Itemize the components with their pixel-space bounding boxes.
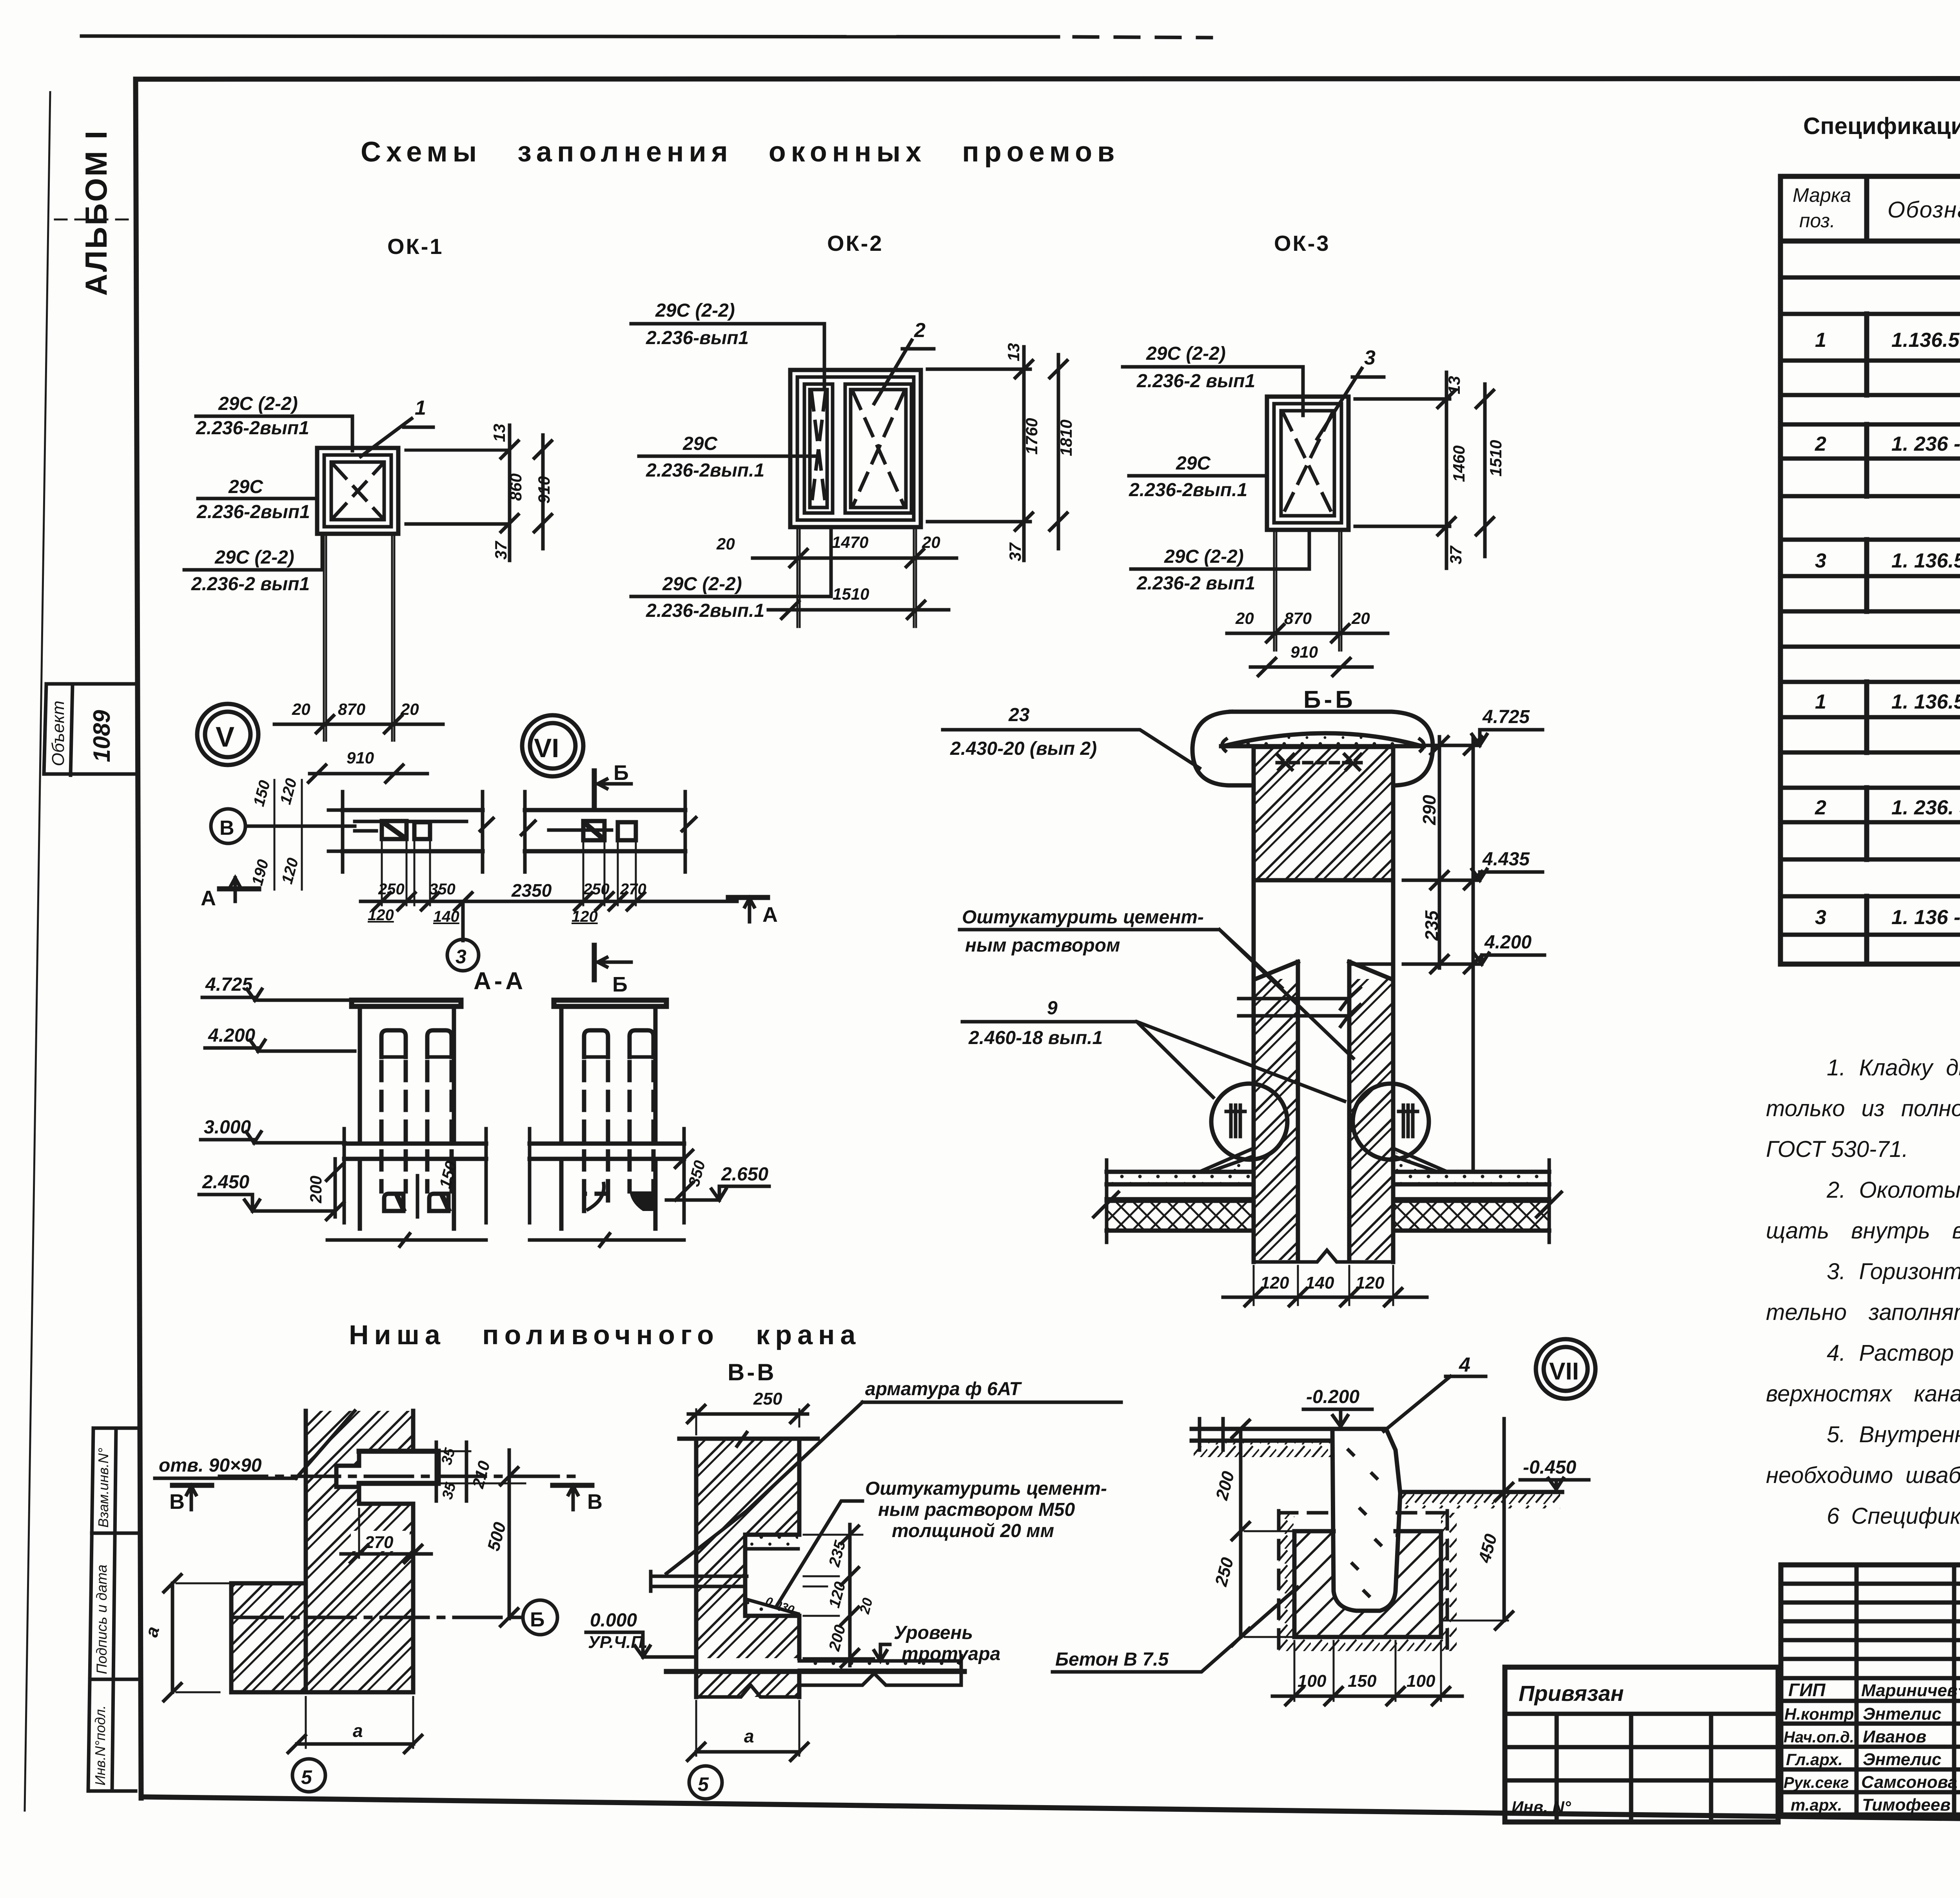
OK-1 right dim line 860 [508, 425, 512, 560]
svg-text:поз.: поз. [1799, 210, 1835, 232]
svg-text:В-В: В-В [728, 1359, 777, 1385]
OK-1 window frame outer [317, 448, 398, 534]
svg-text:290: 290 [1419, 795, 1439, 825]
BB channel right wall hatched [1349, 979, 1391, 1260]
svg-text:Б-Б: Б-Б [1303, 686, 1356, 713]
pos circle 3 [461, 901, 465, 941]
A-A right wall below roof [561, 1159, 655, 1229]
svg-text:20: 20 [1351, 609, 1370, 627]
niche plan section mark B left [172, 1483, 212, 1488]
A-A left vent arch 2 [427, 1030, 452, 1057]
V dim projection lines [382, 839, 430, 905]
node VII circle [1536, 1339, 1595, 1399]
svg-text:1.136.5 - 16·ч 1,2: 1.136.5 - 16·ч 1,2 [1891, 329, 1960, 352]
svg-text:Объект: Объект [49, 701, 68, 766]
svg-text:5: 5 [698, 1773, 709, 1795]
svg-text:только из полнотелого глиняног: только из полнотелого глиняного обыкнове… [1766, 1096, 1960, 1121]
svg-text:ГИП: ГИП [1788, 1680, 1826, 1700]
OK-3 bottom dim 910 [1250, 665, 1372, 669]
svg-text:1: 1 [1815, 329, 1826, 352]
svg-text:тельно заполнять раствором.: тельно заполнять раствором. [1766, 1300, 1960, 1325]
svg-text:Энтелис: Энтелис [1863, 1750, 1941, 1769]
BB channel left wall hatched [1256, 979, 1298, 1260]
OK-2 right dim 1760 [1022, 347, 1026, 560]
svg-text:3: 3 [1364, 346, 1376, 369]
svg-text:4.200: 4.200 [208, 1025, 255, 1046]
A-A left wall below roof [360, 1159, 454, 1229]
svg-text:1: 1 [415, 397, 426, 419]
section mark Б bottom [592, 945, 597, 980]
svg-text:необходимо швабровать жидким г: необходимо швабровать жидким глинопесчан… [1766, 1463, 1960, 1488]
OK-2 bottom dim 1510 [768, 608, 949, 612]
VII ground left [1192, 1429, 1332, 1441]
VV footing line [799, 1673, 961, 1685]
A-A left channel dashes [381, 1062, 452, 1191]
svg-text:270: 270 [620, 881, 646, 898]
axis B circle [211, 809, 245, 843]
svg-text:ным раствором: ным раствором [965, 935, 1120, 956]
niche plan section mark B right [553, 1483, 592, 1488]
svg-text:a: a [744, 1726, 754, 1746]
svg-text:870: 870 [1284, 609, 1312, 627]
section mark A right [728, 895, 768, 900]
A-A left bottom dim line [327, 1234, 486, 1246]
A-A right vent arch 1 [584, 1030, 608, 1057]
left margin divider dashes [55, 219, 136, 221]
BB flashing in left circle [1226, 1105, 1245, 1137]
svg-text:В: В [220, 817, 234, 839]
OK-1 bottom dim line 20-870-20 [274, 723, 443, 726]
VV dims right: 235,120,20,200 [804, 1535, 874, 1658]
niche plan dim 270 [351, 1531, 410, 1551]
OK-2 bottom projection lines [797, 527, 916, 627]
OK-1 bottom projection lines [324, 534, 394, 741]
VV sidewalk dotted band [799, 1661, 961, 1670]
svg-text:2: 2 [1815, 433, 1826, 455]
svg-text:2: 2 [1815, 796, 1826, 819]
VI dim projection lines [583, 840, 636, 905]
svg-text:А: А [762, 903, 778, 926]
A-A right cap slab [554, 1000, 666, 1006]
A-A left lower openings [384, 1194, 403, 1211]
svg-text:4.200: 4.200 [1484, 932, 1532, 953]
OK-2 left sash [804, 384, 833, 513]
svg-text:20: 20 [716, 535, 735, 553]
svg-text:3: 3 [456, 946, 466, 968]
svg-text:отв. 90×90: отв. 90×90 [159, 1455, 262, 1476]
svg-text:тротуара: тротуара [902, 1644, 1000, 1664]
niche plan dim 500 [508, 1450, 511, 1619]
svg-text:20: 20 [400, 700, 419, 718]
svg-text:350: 350 [429, 881, 456, 898]
VV niche lintel dotted [747, 1536, 798, 1549]
svg-text:1. 236. 5 - 9: 1. 236. 5 - 9 [1891, 796, 1960, 819]
VI wall band [525, 810, 685, 851]
node V circle [197, 704, 258, 765]
OK-1 right projection lines [405, 450, 510, 525]
svg-text:20: 20 [1235, 609, 1254, 627]
OK-2 bottom dim 20-1470-20 [753, 557, 956, 560]
niche plan dim a left [171, 1583, 174, 1692]
BB roof layers right [1393, 1172, 1549, 1199]
svg-text:4: 4 [1459, 1354, 1470, 1376]
svg-text:150: 150 [1348, 1671, 1377, 1691]
VII dim 250 left [1239, 1531, 1243, 1637]
BB stack outer walls [1254, 880, 1393, 1262]
svg-text:1089: 1089 [89, 710, 115, 762]
svg-text:29С: 29С [228, 477, 263, 497]
A-A dim 200 [334, 1159, 337, 1217]
svg-text:29С (2-2): 29С (2-2) [662, 574, 742, 595]
OK-1 window frame middle [324, 455, 391, 527]
sheet outer left border [25, 92, 50, 1811]
svg-text:Б: Б [530, 1608, 544, 1631]
A-A right bottom dim line [530, 1234, 684, 1246]
svg-text:29С: 29С [682, 433, 718, 454]
svg-text:200: 200 [307, 1176, 325, 1204]
svg-text:2.460-18 вып.1: 2.460-18 вып.1 [968, 1028, 1103, 1048]
A-A right channel dashes [584, 1062, 653, 1191]
signature grid upper empty rows [1781, 1584, 1960, 1678]
svg-text:Б: Б [612, 973, 628, 996]
svg-text:Взам.инв.N°: Взам.инв.N° [95, 1448, 111, 1528]
svg-text:100: 100 [1298, 1671, 1327, 1691]
signature grid verticals [1857, 1565, 1960, 1815]
svg-text:1: 1 [1815, 691, 1826, 713]
svg-text:270: 270 [364, 1533, 394, 1552]
VII bottom dims 100 150 100 [1294, 1641, 1441, 1701]
node VI circle [522, 715, 583, 776]
svg-text:910: 910 [535, 476, 553, 504]
svg-text:37: 37 [1446, 546, 1465, 564]
svg-text:2.236-2вып.1: 2.236-2вып.1 [1129, 480, 1247, 500]
svg-text:2350: 2350 [511, 880, 552, 901]
svg-text:1. 236 - 6 вып I: 1. 236 - 6 вып I [1891, 433, 1960, 455]
BB cap top slab dotted [1226, 733, 1419, 745]
svg-text:4. Раствор выдавленный из ш: 4. Раствор выдавленный из швов на внутре… [1827, 1340, 1960, 1366]
svg-text:V: V [216, 721, 234, 753]
niche plan notch box [359, 1451, 438, 1483]
svg-text:В: В [587, 1490, 603, 1514]
BB right dim 290/235 [1438, 737, 1441, 968]
niche plan dims 35/35/210 [416, 1451, 525, 1483]
svg-text:ОК-2: ОК-2 [827, 231, 884, 256]
OK-3 bottom dim 20-870-20 [1227, 632, 1388, 635]
svg-text:Оштукатурить цемент-: Оштукатурить цемент- [865, 1478, 1107, 1499]
niche plan axis to B circle [235, 1616, 517, 1619]
OK-2 window frame inner [797, 377, 914, 520]
svg-text:т.арх.: т.арх. [1791, 1796, 1842, 1814]
OK-3 right projection lines [1354, 398, 1450, 527]
svg-text:2.450: 2.450 [202, 1172, 249, 1193]
svg-text:арматура ф 6АТ: арматура ф 6АТ [865, 1379, 1022, 1399]
BB bottom dim line [1223, 1296, 1427, 1299]
A-A right lower opening dashed [584, 1194, 608, 1211]
svg-text:-0.200: -0.200 [1306, 1387, 1359, 1407]
svg-text:37: 37 [1006, 542, 1024, 561]
BB roof slope wedge right [1393, 1148, 1447, 1172]
A-A dim 150 [416, 1176, 419, 1217]
VV ground level line [666, 1669, 964, 1674]
svg-text:a: a [353, 1720, 363, 1741]
OK-2 opening dashes right sash [853, 392, 904, 506]
VII excavation dashed [1279, 1511, 1447, 1648]
OK-2 window frame outer [790, 370, 921, 527]
svg-text:100: 100 [1406, 1671, 1436, 1691]
A-A left stack body [360, 1006, 454, 1144]
svg-text:Оштукатурить цемент-: Оштукатурить цемент- [962, 907, 1204, 928]
main frame bottom [141, 1797, 1960, 1826]
A-A right vent arch 2 [630, 1030, 653, 1057]
A-A roof slab right [530, 1144, 684, 1159]
svg-text:Гл.арх.: Гл.арх. [1786, 1750, 1843, 1769]
svg-text:А-А: А-А [474, 968, 526, 995]
svg-text:250: 250 [583, 881, 610, 898]
svg-text:250: 250 [378, 881, 405, 898]
VII concrete bed [1294, 1531, 1441, 1637]
left margin bottom stamp boxes [88, 1428, 138, 1791]
BB cap outline [1192, 712, 1433, 785]
svg-text:Ниша поливочного крана: Ниша поливочного крана [349, 1320, 861, 1350]
main frame left [136, 79, 141, 1798]
OK-3 right dim 1510 [1483, 384, 1487, 557]
VV wall hatched [696, 1439, 799, 1658]
svg-text:13: 13 [490, 424, 508, 442]
V dim line [361, 900, 737, 903]
svg-text:Иванов: Иванов [1863, 1727, 1926, 1746]
svg-text:2.236-2 вып1: 2.236-2 вып1 [1136, 573, 1255, 594]
svg-text:верхностях каналов удаляется: верхностях каналов удаляется. [1766, 1381, 1960, 1407]
svg-text:1810: 1810 [1057, 420, 1075, 456]
VV rebar lines [651, 1576, 747, 1586]
svg-text:2.236-2вып1: 2.236-2вып1 [196, 418, 309, 439]
BB detail circle left [1211, 1084, 1287, 1160]
BB bottom dim projections [1254, 1266, 1393, 1305]
OK-2 right projection lines [927, 368, 1031, 522]
svg-text:910: 910 [1290, 643, 1318, 661]
svg-text:А: А [201, 886, 216, 910]
svg-text:2.236-2вып.1: 2.236-2вып.1 [646, 600, 764, 621]
OK-1 window frame inner [331, 462, 384, 520]
BB inside-cap zigzag vent marks [1277, 754, 1361, 771]
A-A left vent arch 1 [381, 1030, 406, 1057]
VV wall below ground [696, 1671, 799, 1697]
svg-text:235: 235 [1421, 910, 1442, 941]
V vent hole 2 [414, 822, 430, 839]
svg-text:2. Околотые поверхности кирпич: 2. Околотые поверхности кирпича не допус… [1826, 1177, 1960, 1203]
VI vent hole 2 [618, 822, 636, 840]
svg-text:толщиной 20 мм: толщиной 20 мм [892, 1521, 1054, 1541]
svg-text:29С (2-2): 29С (2-2) [655, 300, 735, 321]
svg-text:Спецификация к схемам запол: Спецификация к схемам заполнения оконных… [1803, 113, 1960, 139]
svg-text:1760: 1760 [1022, 418, 1041, 455]
VI vent hole 1 [583, 821, 604, 840]
svg-text:1510: 1510 [833, 585, 869, 603]
svg-text:4.725: 4.725 [205, 974, 253, 995]
svg-text:4.435: 4.435 [1482, 849, 1530, 870]
svg-text:1. 136.5 - 16 ч 1,2: 1. 136.5 - 16 ч 1,2 [1891, 549, 1960, 572]
svg-text:щать внутрь вентиляционного: щать внутрь вентиляционного канала. [1766, 1218, 1960, 1244]
svg-text:Н.контр: Н.контр [1784, 1705, 1854, 1723]
OK-3 opening dashes [1283, 413, 1332, 513]
niche plan left wing wall [231, 1583, 306, 1692]
svg-text:0.000: 0.000 [590, 1610, 637, 1631]
svg-text:ным раствором М50: ным раствором М50 [878, 1499, 1075, 1520]
sheet outer top border [82, 36, 1058, 37]
OK-3 window frame middle [1274, 404, 1341, 523]
V band right break [480, 792, 493, 872]
BB detail circle right [1353, 1084, 1429, 1160]
svg-text:Б: Б [613, 761, 629, 785]
svg-text:4.725: 4.725 [1482, 707, 1530, 727]
svg-text:Нач.оп.д.: Нач.оп.д. [1784, 1729, 1854, 1746]
svg-text:Обозначение: Обозначение [1887, 197, 1960, 223]
svg-text:20: 20 [922, 533, 940, 551]
svg-text:910: 910 [347, 749, 374, 767]
svg-text:140: 140 [1305, 1273, 1334, 1293]
niche plan dim a bottom [297, 1742, 414, 1746]
spec table outer [1780, 176, 1960, 964]
svg-text:ОК-3: ОК-3 [1274, 231, 1330, 256]
spec table header verticals [1867, 176, 1960, 241]
svg-text:В: В [169, 1490, 185, 1514]
V wall band [343, 810, 483, 851]
V band left end ticks [328, 792, 357, 872]
svg-text:120: 120 [1356, 1273, 1385, 1293]
svg-text:VII: VII [1549, 1358, 1579, 1385]
svg-text:2.236-2вып1: 2.236-2вып1 [196, 502, 310, 522]
signature rows [1781, 1701, 1960, 1792]
svg-text:37: 37 [492, 541, 510, 560]
svg-text:1470: 1470 [832, 533, 868, 551]
svg-text:2.650: 2.650 [721, 1164, 768, 1185]
OK-3 window frame inner [1281, 411, 1334, 516]
svg-text:20: 20 [292, 700, 310, 718]
OK-2 right sash [845, 384, 911, 513]
VI band left break [521, 792, 535, 872]
OK-1 bottom dim line 910 [310, 772, 427, 776]
VV pos circle 5 [689, 1766, 722, 1799]
svg-text:1. 136 - 5 - 17: 1. 136 - 5 - 17 [1891, 906, 1960, 929]
svg-text:120: 120 [368, 906, 394, 924]
svg-text:Энтелис: Энтелис [1863, 1704, 1941, 1724]
svg-text:2.236-вып1: 2.236-вып1 [646, 328, 749, 348]
VI band right end [682, 792, 696, 872]
BB roof layers left [1107, 1172, 1254, 1199]
svg-text:Рук.секг: Рук.секг [1784, 1774, 1849, 1791]
svg-text:3: 3 [1815, 906, 1826, 929]
svg-text:1510: 1510 [1486, 440, 1505, 477]
svg-text:860: 860 [506, 473, 525, 501]
svg-text:-0.450: -0.450 [1523, 1457, 1576, 1478]
OK-3 bottom projection lines [1274, 530, 1341, 651]
svg-text:Привязан: Привязан [1519, 1681, 1624, 1706]
A-A right lower opening solid black [630, 1191, 653, 1211]
BB flashing in right circle [1399, 1105, 1417, 1137]
svg-text:120: 120 [1260, 1273, 1289, 1293]
svg-text:Подпись и дата: Подпись и дата [94, 1564, 110, 1674]
svg-text:ГОСТ 530-71.: ГОСТ 530-71. [1766, 1137, 1908, 1162]
V vent hole 1 [382, 821, 407, 839]
svg-text:250: 250 [753, 1389, 782, 1409]
niche plan wall hatched (with notch) [306, 1411, 413, 1692]
A-A left cap slab [352, 1000, 461, 1006]
svg-text:29С (2-2): 29С (2-2) [1164, 546, 1244, 567]
svg-text:120: 120 [572, 908, 598, 925]
VV bottom dim a [696, 1750, 799, 1754]
svg-text:29С (2-2): 29С (2-2) [1146, 343, 1226, 364]
svg-text:5. Внутренние поверхности ве: 5. Внутренние поверхности вентиляционных… [1827, 1422, 1960, 1447]
BB bottom break [1254, 1250, 1393, 1262]
section mark Б top [592, 771, 597, 805]
svg-text:АЛЬБОМ I: АЛЬБОМ I [79, 129, 113, 296]
OK-1 opening dashes [334, 465, 382, 517]
svg-text:140: 140 [433, 908, 459, 925]
svg-text:2.236-2 вып1: 2.236-2 вып1 [191, 574, 310, 595]
svg-text:Инв. N°: Инв. N° [1512, 1798, 1572, 1816]
svg-text:Мариничев: Мариничев [1861, 1681, 1958, 1700]
niche plan pos circle 5 [292, 1759, 325, 1792]
svg-text:1. Кладку дымовых и вентиляцио: 1. Кладку дымовых и вентиляционных канал… [1827, 1055, 1960, 1080]
svg-text:9: 9 [1047, 998, 1058, 1019]
VV mortar wedge [745, 1599, 798, 1614]
title block outer [1781, 1565, 1960, 1815]
VV wall top edge [679, 1437, 818, 1441]
OK-3 right dim 1460 [1445, 372, 1448, 568]
svg-text:Самсонова: Самсонова [1861, 1773, 1957, 1792]
svg-text:Инв.N°подл.: Инв.N°подл. [92, 1705, 108, 1786]
svg-text:13: 13 [1445, 376, 1463, 394]
VII dim 200 left [1239, 1429, 1243, 1531]
VII curb stone [1332, 1429, 1400, 1611]
main frame top [136, 78, 1960, 79]
svg-text:1. 136.5 - 17: 1. 136.5 - 17 [1891, 691, 1960, 713]
svg-text:VI: VI [534, 733, 559, 763]
svg-text:3: 3 [1815, 549, 1826, 572]
VII soil around concrete [1279, 1513, 1457, 1651]
svg-text:5: 5 [301, 1766, 312, 1788]
svg-text:ОК-1: ОК-1 [387, 234, 444, 259]
svg-text:2.430-20 (вып 2): 2.430-20 (вып 2) [950, 738, 1097, 759]
OK-1 right dim line 910 [541, 435, 545, 549]
svg-text:Тимофеев: Тимофеев [1862, 1795, 1951, 1815]
section mark A left [220, 886, 259, 892]
A-A roof slab left [344, 1144, 486, 1159]
svg-text:23: 23 [1008, 705, 1030, 725]
niche plan axis line [220, 1475, 580, 1478]
BB stack upper block hatched [1254, 747, 1393, 880]
svg-text:2: 2 [914, 319, 926, 342]
VII dim 450 right [1503, 1419, 1506, 1621]
svg-text:Марка: Марка [1793, 184, 1851, 206]
spec table header row [1780, 239, 1960, 244]
svg-text:1460: 1460 [1450, 446, 1468, 482]
VII ground right -0.450 [1400, 1490, 1562, 1494]
OK-3 window frame outer [1267, 397, 1348, 530]
svg-text:29С (2-2): 29С (2-2) [214, 547, 294, 568]
BB break lines across shaft [1239, 988, 1360, 1016]
svg-text:3. Горизонтальные и вертикальн: 3. Горизонтальные и вертикальные швы сле… [1827, 1259, 1960, 1284]
OK-2 right dim 1810 [1057, 355, 1060, 549]
svg-text:Схемы заполнения оконных пр: Схемы заполнения оконных проемов [361, 136, 1120, 168]
BB roof slope wedge left [1200, 1148, 1254, 1172]
svg-text:29С (2-2): 29С (2-2) [218, 393, 298, 414]
svg-text:13: 13 [1004, 343, 1023, 361]
svg-text:Уровень: Уровень [894, 1622, 973, 1643]
A-A right stack body [561, 1006, 655, 1144]
left margin box Объект/1089 [44, 684, 138, 775]
OK-2 opening dashes left sash [811, 392, 826, 506]
